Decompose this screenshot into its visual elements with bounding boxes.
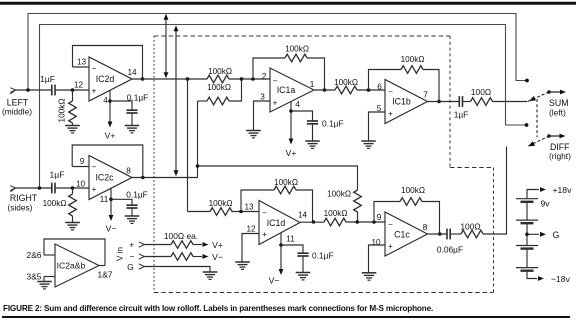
svg-text:100kΩ: 100kΩ	[274, 178, 298, 187]
top border rule	[0, 2, 576, 5]
svg-text:100kΩ: 100kΩ	[58, 99, 67, 123]
wire pin4 to bypass cap IC1a	[291, 111, 313, 121]
wire IC1d feedback	[241, 178, 313, 222]
switch DIFF blade	[527, 134, 551, 148]
node IC1a output	[323, 88, 327, 92]
pin 7 label IC1b	[423, 91, 428, 100]
M-S connection arrow left (wire1 to IC2d output)	[164, 14, 169, 79]
svg-text:+: +	[262, 230, 267, 239]
node riser to IC1c tap	[196, 164, 200, 168]
label LEFT (middle)	[2, 98, 32, 117]
svg-text:11: 11	[100, 195, 109, 204]
battery cell 2	[516, 220, 538, 245]
svg-text:1µF: 1µF	[454, 110, 469, 120]
op-amp IC1d	[259, 201, 300, 245]
wire left-input bypass to SUM switch	[28, 14, 529, 91]
wire IC2a&b feedback	[44, 239, 105, 266]
dashed box right edge lower	[493, 168, 495, 293]
pin 14 label IC2d	[127, 68, 137, 77]
node IC1a feedback junction	[251, 77, 255, 81]
svg-text:10: 10	[371, 238, 381, 247]
label SUM (left)	[549, 98, 569, 118]
svg-text:IC1b: IC1b	[392, 97, 411, 107]
label DIFF (right)	[549, 142, 571, 161]
ground IC1b pin5	[361, 141, 376, 148]
svg-text:+: +	[129, 240, 134, 250]
capacitor 1uF left input	[40, 74, 55, 95]
resistor R 100k IC1d to IC1c	[324, 209, 385, 226]
pin 3 wire IC1a to ground	[254, 93, 271, 131]
op-amp IC1a	[270, 68, 314, 112]
svg-text:100kΩ: 100kΩ	[324, 209, 348, 218]
resistor R 100k vertical IC1c input from IC2c	[327, 190, 361, 223]
node IC1a pin2 junction lower-R	[240, 77, 244, 81]
svg-text:+: +	[388, 110, 393, 119]
bottom rule	[2, 316, 570, 318]
svg-text:V+: V+	[212, 240, 223, 250]
svg-text:−: −	[92, 64, 97, 73]
capacitor 0.06uF DIFF output	[437, 229, 463, 255]
svg-text:−: −	[92, 163, 97, 172]
wire IC2c feedback	[72, 145, 143, 177]
battery G tap arrow	[525, 230, 559, 240]
svg-text:1µF: 1µF	[50, 170, 65, 180]
svg-text:4: 4	[103, 96, 108, 105]
wire IC1a feedback	[253, 45, 325, 91]
pin 12 wire IC1d to ground	[242, 225, 259, 263]
dashed box left edge	[153, 36, 155, 293]
svg-text:V+: V+	[105, 131, 116, 141]
svg-text:+: +	[388, 242, 393, 251]
svg-text:0.1µF: 0.1µF	[127, 93, 149, 103]
wire right-input bypass to DIFF switch	[40, 25, 529, 189]
pin 14 label IC1d	[298, 211, 308, 220]
wire IC2c output	[132, 177, 198, 179]
node IC1c input junction 2	[372, 220, 376, 224]
node RIGHT input junction	[38, 186, 42, 190]
pin 12 label IC2d	[74, 81, 84, 90]
svg-text:+: +	[92, 185, 97, 194]
dashed box bottom edge	[154, 292, 494, 294]
svg-text:IC1d: IC1d	[267, 218, 286, 228]
svg-text:3&5: 3&5	[27, 272, 42, 282]
svg-text:7: 7	[423, 91, 428, 100]
resistor 100R DIFF output	[450, 147, 506, 238]
pin 8 label IC2c	[126, 167, 131, 176]
battery cell 1 9v	[516, 199, 550, 221]
V- supply arrow IC2c	[106, 215, 117, 234]
pin 13 wire IC2d	[73, 58, 90, 68]
label 100R ea	[164, 231, 198, 241]
svg-text:IC2d: IC2d	[96, 74, 115, 84]
ground IC1a pin3	[246, 131, 261, 138]
ground IC1d supply cap	[296, 273, 311, 280]
svg-text:−: −	[388, 88, 393, 97]
svg-text:9: 9	[80, 157, 85, 166]
wire riser IC2c output to IC1a	[197, 101, 199, 178]
pin 4 wire IC2d	[103, 90, 112, 122]
svg-text:C1c: C1c	[394, 230, 410, 240]
svg-text:100kΩ: 100kΩ	[401, 55, 425, 64]
pin 2 label IC1a	[262, 72, 267, 81]
svg-text:(left): (left)	[549, 108, 566, 118]
battery cell 3	[516, 246, 538, 268]
capacitor 1uF right input	[50, 170, 65, 194]
ground IC1c pin10	[362, 273, 377, 280]
svg-text:9v: 9v	[540, 199, 550, 209]
wire IC2d feedback	[73, 46, 143, 80]
svg-text:−18v: −18v	[551, 274, 571, 284]
svg-text:SUM: SUM	[549, 98, 569, 108]
svg-text:V+: V+	[286, 148, 297, 158]
svg-text:11: 11	[286, 235, 295, 244]
svg-text:G: G	[127, 262, 134, 272]
wire IC1d output	[300, 221, 324, 223]
pin 9 label IC1c	[377, 213, 382, 222]
resistor 100R SUM output	[463, 87, 528, 105]
wire IC2d output to IC1a input resistor	[132, 78, 270, 80]
svg-text:(right): (right)	[549, 151, 571, 161]
op-amp IC1b	[385, 80, 428, 124]
svg-text:100kΩ: 100kΩ	[207, 83, 231, 92]
label RIGHT (sides)	[8, 193, 38, 213]
wire pin11 to bypass cap IC2c	[111, 199, 132, 205]
svg-text:IC2a&b: IC2a&b	[57, 261, 86, 271]
label V in	[116, 246, 125, 261]
V+ supply arrow IC2d	[105, 122, 116, 141]
node IC1d pin13	[239, 203, 254, 214]
ground right input resistor	[65, 223, 80, 230]
svg-text:13: 13	[244, 203, 254, 212]
wire IC1b output to cap	[428, 101, 460, 103]
Vin + row	[129, 240, 223, 250]
wire pin11 to bypass cap IC1d	[281, 245, 303, 253]
svg-text:8: 8	[423, 223, 428, 232]
ground left input resistor	[65, 126, 80, 133]
svg-text:100kΩ: 100kΩ	[285, 45, 309, 54]
pin 8 label IC1c	[423, 223, 428, 232]
node IC1c input junction 1	[355, 220, 359, 224]
wire IC1c output to cap	[428, 233, 448, 235]
svg-text:FIGURE 2: Sum and difference c: FIGURE 2: Sum and difference circuit wit…	[3, 304, 433, 313]
svg-text:100kΩ: 100kΩ	[43, 199, 67, 208]
svg-text:2: 2	[262, 72, 267, 81]
node IC2d output feedback junction	[141, 77, 145, 81]
svg-text:13: 13	[77, 58, 87, 67]
svg-text:V in: V in	[116, 246, 125, 261]
node IC1d output	[312, 220, 316, 224]
svg-text:+: +	[92, 87, 97, 96]
op-amp IC2c	[89, 156, 132, 200]
switch SUM blade	[528, 90, 551, 103]
node IC1b output	[437, 100, 441, 104]
svg-text:RIGHT: RIGHT	[10, 193, 38, 203]
svg-text:4: 4	[295, 100, 300, 109]
M-S connection arrow right (wire2 to IC2c output)	[174, 25, 179, 176]
svg-text:IC1a: IC1a	[277, 85, 296, 95]
svg-text:100kΩ: 100kΩ	[209, 199, 233, 208]
svg-text:+18v: +18v	[553, 185, 573, 195]
dashed box (M-S microphone connection region) top edge	[154, 35, 450, 37]
node LEFT input junction	[26, 88, 30, 92]
svg-text:100Ω ea.: 100Ω ea.	[164, 231, 198, 241]
V- supply arrow IC1d	[269, 269, 284, 286]
wire cap to IC2c pin 10	[55, 186, 89, 190]
pin 3&5 wire to ground	[27, 272, 55, 282]
switch SUM output arrow	[549, 90, 566, 95]
svg-text:2&6: 2&6	[27, 250, 42, 260]
svg-text:9: 9	[377, 213, 382, 222]
figure caption	[3, 304, 433, 313]
op-amp IC2a&b	[55, 244, 99, 287]
battery -18v arrow	[527, 271, 571, 284]
ground IC2d supply cap	[125, 126, 140, 133]
resistor R 100k IC1d input from IC2d	[188, 199, 260, 215]
ground IC1d pin12	[235, 262, 250, 269]
Vin - row	[129, 251, 222, 262]
switch gang link	[536, 99, 538, 137]
ground Vin G	[203, 272, 218, 279]
node IC2d output riser junction	[186, 77, 190, 81]
svg-text:100kΩ: 100kΩ	[401, 186, 425, 195]
pin 5 wire IC1b to ground	[369, 104, 386, 141]
svg-text:+: +	[273, 99, 278, 108]
pin 4 wire IC1a	[289, 100, 300, 139]
svg-text:IC2c: IC2c	[95, 173, 114, 183]
svg-text:3: 3	[260, 93, 265, 102]
wire pin4 to bypass cap IC2d	[110, 101, 132, 110]
ground IC2c supply cap	[125, 216, 140, 223]
svg-text:G: G	[553, 230, 560, 240]
pin 1 label IC1a	[310, 80, 315, 89]
svg-text:14: 14	[127, 68, 137, 77]
svg-text:1: 1	[310, 80, 315, 89]
resistor R 100k IC1a input from IC2d	[207, 67, 232, 83]
pin 11 wire IC2c	[100, 189, 113, 216]
svg-text:0.1µF: 0.1µF	[126, 190, 148, 200]
wire cap to IC2d pin 12	[55, 88, 89, 92]
svg-text:−: −	[388, 220, 393, 229]
node IC2c output feedback junction	[141, 176, 145, 180]
capacitor 0.1uF IC1a supply	[307, 119, 344, 142]
svg-text:−: −	[129, 251, 134, 261]
svg-text:V−: V−	[269, 276, 280, 286]
svg-text:6: 6	[377, 83, 382, 92]
wire IC1c feedback	[374, 186, 440, 234]
capacitor 0.1uF IC1d supply	[297, 251, 333, 273]
svg-text:100kΩ: 100kΩ	[208, 67, 232, 76]
svg-text:(middle): (middle)	[2, 107, 32, 117]
svg-text:12: 12	[246, 225, 256, 234]
switch DIFF output arrow	[549, 134, 566, 139]
wire IC2c output tap to IC1c	[198, 166, 358, 190]
wire IC1a output	[314, 89, 335, 91]
svg-text:0.1µF: 0.1µF	[312, 251, 334, 261]
svg-text:V−: V−	[106, 224, 117, 234]
capacitor 0.1uF IC2d supply	[126, 93, 148, 126]
RIGHT input terminal	[10, 186, 52, 192]
svg-text:1&7: 1&7	[98, 270, 113, 280]
wire IC1b feedback	[369, 55, 440, 102]
capacitor 1uF SUM output	[454, 96, 469, 119]
svg-text:12: 12	[74, 81, 84, 90]
svg-text:14: 14	[298, 211, 308, 220]
capacitor 0.1uF IC2c supply	[126, 190, 148, 217]
resistor R 100k IC1a input from IC2c	[198, 79, 242, 105]
battery cell 4	[516, 268, 538, 271]
LEFT input terminal	[10, 88, 52, 94]
svg-text:100Ω: 100Ω	[460, 222, 480, 232]
pin 9 wire IC2c	[72, 157, 89, 167]
svg-text:1µF: 1µF	[40, 74, 55, 84]
svg-text:100Ω: 100Ω	[471, 87, 491, 97]
battery +18v arrow	[527, 185, 572, 199]
dashed box jog	[450, 167, 494, 169]
op-amp IC2d	[89, 57, 132, 101]
resistor R 100k IC1a to IC1b	[334, 78, 385, 94]
pin 10 label IC2c	[76, 180, 86, 189]
resistor 100k right input to ground	[43, 188, 77, 223]
pin 11 wire IC1d	[279, 232, 295, 269]
Vin G row to ground	[127, 262, 210, 272]
svg-text:8: 8	[126, 167, 131, 176]
svg-text:0.1µF: 0.1µF	[322, 119, 344, 129]
svg-text:5: 5	[377, 104, 382, 113]
svg-text:100kΩ: 100kΩ	[334, 78, 358, 87]
svg-text:V−: V−	[212, 252, 223, 262]
ground IC1a supply cap	[305, 141, 320, 148]
pin 10 wire IC1c to ground	[369, 238, 386, 273]
svg-text:100kΩ: 100kΩ	[327, 190, 351, 199]
V+ supply arrow IC1a	[286, 139, 297, 159]
node IC1b pin6	[367, 83, 383, 92]
svg-text:−: −	[262, 209, 267, 218]
pin 1&7 output stub	[98, 266, 113, 280]
svg-text:10: 10	[76, 180, 86, 189]
resistor 100k left input to ground	[58, 90, 77, 126]
ground IC2a&b pin 3&5	[37, 282, 52, 289]
wire riser IC2d output to IC1d	[187, 79, 189, 212]
svg-text:(sides): (sides)	[8, 203, 33, 213]
node IC1c output	[438, 232, 442, 236]
pin 2&6 wire	[27, 250, 55, 260]
dashed box right edge upper	[449, 36, 451, 168]
svg-text:0.06µF: 0.06µF	[437, 245, 463, 255]
op-amp IC1c	[385, 212, 428, 256]
